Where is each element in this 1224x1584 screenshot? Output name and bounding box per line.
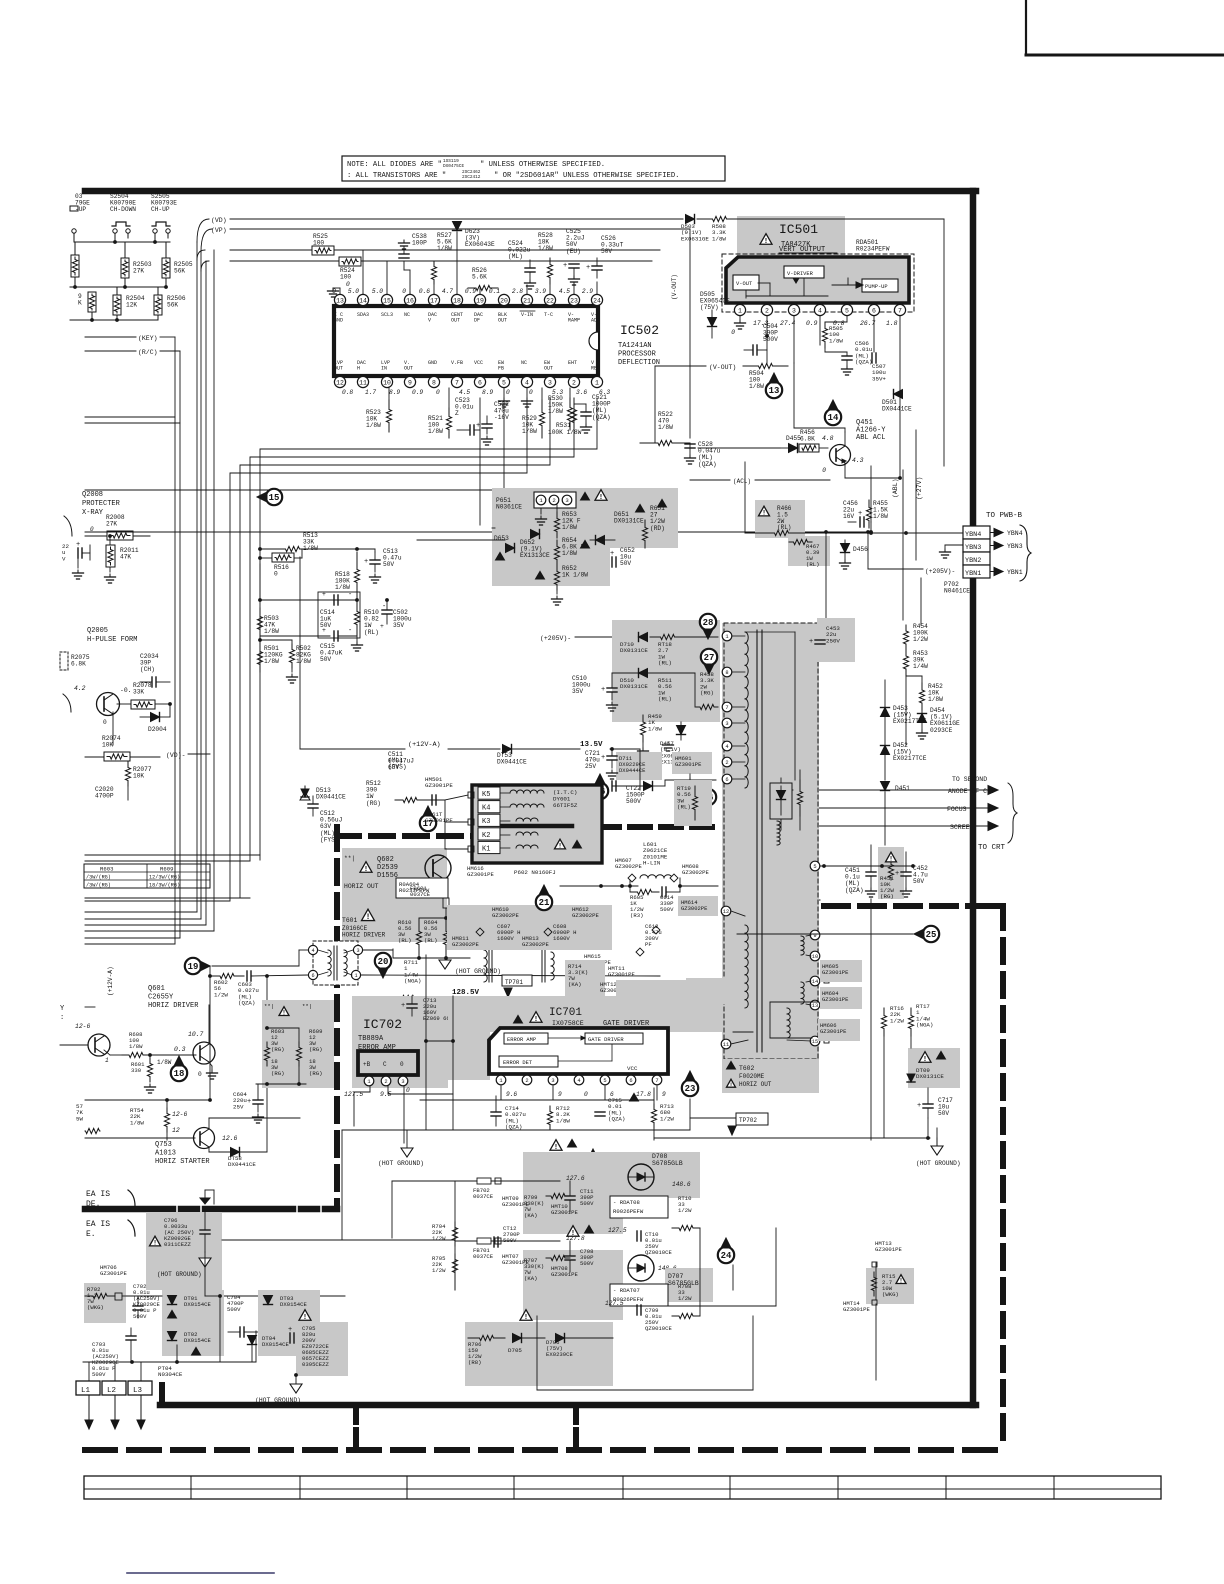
svg-text:(RG): (RG) <box>700 690 714 697</box>
transformer T602 hv rectifier <box>757 780 803 855</box>
svg-text:7: 7 <box>455 379 459 386</box>
node 26 <box>691 789 716 805</box>
capacitor C612 0.47u 200V <box>645 923 662 948</box>
wire ABL row <box>655 366 780 448</box>
ground HM601 <box>685 774 696 787</box>
svg-text:2SC2412: 2SC2412 <box>462 175 481 180</box>
hot/cold boundary dashed horizontal (mid right) <box>824 903 971 909</box>
svg-text:(KEY): (KEY) <box>138 335 158 342</box>
svg-text:19: 19 <box>476 297 484 304</box>
yoke terminal K3 <box>478 814 500 826</box>
svg-text:100: 100 <box>340 274 351 281</box>
svg-text:(ACL): (ACL) <box>733 478 751 485</box>
svg-text:50V: 50V <box>913 878 924 885</box>
label HM608 <box>682 863 709 876</box>
capacitor C704 4700P 500V <box>227 1294 258 1337</box>
resistor R459 1K 1/8W <box>638 713 663 757</box>
svg-text:PUMP-UP: PUMP-UP <box>865 284 888 290</box>
label HMT14 <box>843 1300 877 1313</box>
label RDA604 box <box>396 878 448 898</box>
svg-text:9.6: 9.6 <box>506 1091 517 1098</box>
svg-text:8.9: 8.9 <box>389 389 400 396</box>
svg-text:D708: D708 <box>652 1153 668 1160</box>
gray HM603 box <box>686 978 734 1004</box>
svg-text:!: ! <box>558 843 562 851</box>
wire SCL riser <box>85 261 206 925</box>
svg-text:D707: D707 <box>668 1273 684 1280</box>
label HM607 <box>615 857 642 870</box>
svg-text:5: 5 <box>845 307 849 314</box>
svg-text:EX1313CE: EX1313CE <box>520 552 550 559</box>
ic IC701 ERROR DET box <box>499 1056 558 1067</box>
resistor RT18 2.7 1W <box>650 634 718 666</box>
transformer T602 right windings <box>787 935 811 1041</box>
capacitor C513 0.47u 50V <box>330 548 402 583</box>
svg-text:1: 1 <box>105 1057 109 1064</box>
svg-text:13: 13 <box>769 386 780 396</box>
svg-text:L3: L3 <box>133 1387 143 1395</box>
ic IC702 pins <box>344 1076 410 1098</box>
wire mid bottom rails <box>85 1100 654 1296</box>
capacitor C652 10u 50V <box>610 547 635 567</box>
svg-text:(VD): (VD) <box>211 217 227 224</box>
svg-text:12K: 12K <box>126 302 137 309</box>
resistor R531 100K 1/8W <box>548 422 582 436</box>
resistor R452 10K 1/8W <box>906 676 943 710</box>
svg-text:0.9: 0.9 <box>806 320 818 327</box>
svg-text:**|: **| <box>344 855 355 862</box>
svg-text:(R/C): (R/C) <box>138 349 158 356</box>
diode D456 <box>840 540 869 569</box>
ic IC701 pin 7 <box>652 1075 666 1098</box>
svg-text:ABL ACL: ABL ACL <box>856 434 885 442</box>
transformer T602 pin12 <box>721 906 745 916</box>
svg-text:5: 5 <box>502 379 506 386</box>
svg-text:R0234PEFW: R0234PEFW <box>856 246 890 253</box>
svg-text:500V: 500V <box>580 1200 594 1207</box>
svg-text:3: 3 <box>725 721 728 727</box>
svg-text:2: 2 <box>765 307 769 314</box>
svg-text:11: 11 <box>723 1042 729 1048</box>
wire top transformer <box>727 608 745 632</box>
svg-text:1600V: 1600V <box>497 935 514 942</box>
transistor Q2005 <box>63 685 132 726</box>
label EA IS E cut <box>86 1220 135 1239</box>
ic IC501 PUMP-UP box <box>862 279 898 292</box>
label HMT13 <box>872 1240 902 1267</box>
label EA IS DE cut <box>86 1190 135 1209</box>
svg-text:+: + <box>586 264 590 272</box>
svg-text:SCL3: SCL3 <box>381 312 393 318</box>
resistor R518 180K 1/8W <box>335 552 360 600</box>
wire pin6 row <box>665 780 716 786</box>
ground pin4 <box>522 388 533 407</box>
svg-text:-: - <box>348 591 352 599</box>
svg-text:6.8K: 6.8K <box>800 436 815 443</box>
svg-text:500V: 500V <box>92 1371 106 1378</box>
node 27 <box>701 649 717 674</box>
svg-text:DX0441CE: DX0441CE <box>316 794 346 801</box>
svg-text:D2004: D2004 <box>148 726 167 733</box>
capacitor C614 330P 500V <box>660 886 718 913</box>
diode D701 DX0154CE <box>168 1295 212 1318</box>
svg-text:DX0441CE: DX0441CE <box>497 759 527 766</box>
svg-text:1/4W: 1/4W <box>913 663 928 670</box>
capacitor C512 0.56uJ <box>308 796 342 843</box>
node 22 <box>585 1149 601 1174</box>
svg-text:127.5: 127.5 <box>605 1300 624 1307</box>
svg-text:N0361CE: N0361CE <box>496 504 522 511</box>
svg-text:DX0154CE: DX0154CE <box>280 1301 307 1308</box>
svg-text:17: 17 <box>430 297 438 304</box>
svg-text:1: 1 <box>595 379 599 386</box>
svg-text:GZ3001PE: GZ3001PE <box>875 1246 902 1253</box>
svg-text:HORIZ OUT: HORIZ OUT <box>739 1081 772 1088</box>
wire pin16 nc <box>409 292 411 294</box>
svg-text:5: 5 <box>813 864 816 870</box>
resistor R525 100 <box>312 233 334 255</box>
gray RT19 box <box>674 780 712 826</box>
capacitor C507 100u 35V <box>872 316 886 382</box>
svg-text:100K 1/8W: 100K 1/8W <box>548 429 582 436</box>
svg-text:ADC: ADC <box>591 317 600 323</box>
wire bottom rail <box>70 312 158 322</box>
thyristor D707 S6785GLB <box>628 1255 699 1287</box>
transistor Q2008 X-RAY label <box>82 491 121 517</box>
svg-text:4: 4 <box>818 307 822 314</box>
inductor L601 H-LIN <box>628 841 682 888</box>
svg-text:(RL): (RL) <box>658 660 672 667</box>
label PT04 N0304CE <box>158 1365 183 1378</box>
svg-text:(HOT GROUND): (HOT GROUND) <box>378 1160 424 1167</box>
ic IC701 pin 2 <box>522 1075 532 1085</box>
capacitor C510 1000u 35V <box>572 673 618 711</box>
hot ground right <box>916 1128 961 1167</box>
capacitor C451 0.1u <box>845 845 877 897</box>
deflection yoke block DY601 <box>472 785 602 863</box>
svg-text:14: 14 <box>828 413 839 423</box>
svg-text:" UNLESS OTHERWISE SPECIFIED.: " UNLESS OTHERWISE SPECIFIED. <box>480 161 605 169</box>
svg-text:OUT: OUT <box>404 365 413 371</box>
svg-text:1/8W: 1/8W <box>264 628 279 635</box>
ground pin13 <box>328 281 351 297</box>
transistor Q451 A1266-Y <box>822 419 886 474</box>
ground stub C706 <box>200 1190 214 1204</box>
svg-text:DX0154CE: DX0154CE <box>184 1301 211 1308</box>
svg-text:YBN1: YBN1 <box>1007 569 1023 576</box>
gray HM604 box <box>820 987 862 1009</box>
yoke label DY601 <box>553 789 578 809</box>
svg-text:Q601: Q601 <box>148 985 165 993</box>
svg-text:0: 0 <box>822 467 826 474</box>
wire transformer bottoms <box>733 1013 753 1140</box>
svg-text:RAMP: RAMP <box>568 317 580 323</box>
svg-text:YBN3: YBN3 <box>965 544 981 552</box>
wire top right K5 <box>425 799 445 801</box>
svg-text:(V-OUT): (V-OUT) <box>671 274 678 300</box>
wire lower loop <box>345 1296 753 1390</box>
svg-text:4: 4 <box>311 948 314 954</box>
wire C514 row <box>260 635 357 637</box>
svg-text:C2655Y: C2655Y <box>148 994 174 1002</box>
svg-text:2.8: 2.8 <box>512 288 523 295</box>
connector P651 N0361CE <box>496 492 576 525</box>
svg-text:IC501: IC501 <box>779 222 818 237</box>
node 17 <box>420 806 436 831</box>
svg-text:26.7: 26.7 <box>860 320 876 327</box>
wire IC702 pins down <box>354 1086 453 1143</box>
resistor R709 330K 7W <box>524 1193 570 1219</box>
transformer T602 primary winding <box>745 632 748 788</box>
footer underline <box>127 1572 274 1574</box>
resistor R458 3.3K 2W <box>695 671 718 710</box>
svg-text:TP702: TP702 <box>739 1117 757 1124</box>
svg-text:DX0154CE: DX0154CE <box>262 1341 289 1348</box>
svg-text:100P: 100P <box>412 240 427 247</box>
svg-text:DX0441CE: DX0441CE <box>228 1161 256 1168</box>
capacitor C523 0.01u Z <box>455 397 480 435</box>
svg-text:6.8K: 6.8K <box>71 661 86 668</box>
svg-text:DX0131CE: DX0131CE <box>614 518 644 525</box>
diode D651 DX0131CE <box>590 504 645 544</box>
resistor R705 22K 1/2W <box>432 1254 458 1290</box>
svg-text:+: + <box>809 638 813 646</box>
svg-text:(HOT GROUND): (HOT GROUND) <box>255 1397 301 1404</box>
wire Q601 bundle <box>60 944 175 1045</box>
svg-text:EHT: EHT <box>568 360 577 366</box>
capacitor C538 100P <box>399 233 428 294</box>
svg-text:25: 25 <box>926 930 937 940</box>
svg-text:(FYS): (FYS) <box>388 764 407 771</box>
svg-text:12: 12 <box>336 379 344 386</box>
gray box P651 cluster <box>492 488 678 586</box>
svg-text:!: ! <box>762 510 766 518</box>
ic IC502 pin 14 <box>348 288 369 318</box>
switch S2503 (cut) <box>70 193 90 233</box>
svg-text:YBN4: YBN4 <box>1007 530 1023 537</box>
svg-text:VCC: VCC <box>627 1065 638 1072</box>
yoke bar <box>502 824 572 829</box>
svg-text:D456: D456 <box>853 546 868 553</box>
capacitor C525 2.2uJ <box>563 228 585 294</box>
svg-text:1: 1 <box>367 1079 370 1085</box>
ic IC502 pin 13 <box>332 288 345 323</box>
svg-text:H: H <box>357 365 360 371</box>
svg-text:12/3W/(RG): 12/3W/(RG) <box>149 875 180 881</box>
ic IC502 pin 4 <box>521 360 533 396</box>
svg-text:TO SECOND: TO SECOND <box>952 776 987 783</box>
gray R702 box <box>84 1283 126 1323</box>
diode D702 DX0154CE <box>168 1331 212 1355</box>
ic IC701 pin 6 <box>626 1075 651 1098</box>
svg-text:(+12V-A): (+12V-A) <box>408 741 441 749</box>
svg-text:1/8W: 1/8W <box>157 1059 172 1066</box>
svg-text:K2: K2 <box>482 832 490 840</box>
revision table <box>84 1476 1161 1499</box>
capacitor C607 6900P H 1600V <box>476 923 521 942</box>
label Y cut <box>60 1005 65 1022</box>
label HM612 <box>572 906 599 919</box>
svg-text:13: 13 <box>812 1003 818 1009</box>
svg-text:1/8W: 1/8W <box>928 696 943 703</box>
wire mid risers2 <box>424 955 455 1130</box>
ground R510 <box>352 636 363 651</box>
transformer T602 right pins <box>810 930 829 1046</box>
svg-text:6: 6 <box>725 777 728 783</box>
transformer T602 label box <box>722 1059 819 1093</box>
capacitor C524 0.022u <box>508 240 536 294</box>
diode D652 EX1313CE <box>520 530 550 560</box>
label HMT12 126V <box>600 981 662 997</box>
svg-text:- RDAT07: - RDAT07 <box>613 1287 640 1294</box>
label RDAT07 box <box>610 1284 668 1306</box>
wire ABL long run <box>85 489 610 491</box>
resistor R2506 56K <box>154 287 186 315</box>
svg-text:4700P: 4700P <box>95 793 114 800</box>
svg-text:!: ! <box>764 238 768 246</box>
svg-text:5.0: 5.0 <box>348 288 359 295</box>
svg-text:2: 2 <box>572 379 576 386</box>
label HMT11 <box>608 965 635 978</box>
svg-text:V.FB: V.FB <box>451 360 463 366</box>
net label (R/C) <box>85 349 180 356</box>
svg-text:D1556: D1556 <box>377 872 398 880</box>
wire L stubs <box>89 1362 141 1381</box>
net (V-OUT) <box>655 364 736 371</box>
fuse FB601 0037CE <box>410 885 431 898</box>
svg-text:-UP: -UP <box>75 206 86 213</box>
ic IC502 pin 19 <box>465 288 486 323</box>
svg-text:10K: 10K <box>102 742 113 749</box>
ic IC701 ERROR AMP box <box>504 1033 548 1044</box>
capacitor C709 0.01u <box>605 1300 672 1332</box>
svg-text:" OR "2SD601AR" UNLESS OTHERWI: " OR "2SD601AR" UNLESS OTHERWISE SPECIFI… <box>494 172 679 180</box>
svg-text:100: 100 <box>313 240 324 247</box>
svg-text:21: 21 <box>539 898 550 908</box>
svg-text:+: + <box>247 1098 251 1106</box>
transistor Q753 label <box>155 1141 210 1166</box>
svg-text:1/8W: 1/8W <box>366 422 381 429</box>
ic IC702 label <box>358 1017 402 1052</box>
svg-text:0: 0 <box>274 571 278 578</box>
label HM501 <box>425 776 453 789</box>
resistor R501 120KG 1/8W <box>257 638 282 672</box>
svg-text:1K 1/8W: 1K 1/8W <box>562 572 588 579</box>
hot/cold boundary dashed horizontal (bottom) <box>85 906 1003 1450</box>
ic IC701 label <box>514 1007 651 1028</box>
gray HM601 box <box>672 752 712 774</box>
label HM709 <box>495 1178 529 1208</box>
svg-text:8.9: 8.9 <box>482 389 493 396</box>
ic IC501 V-DRIVER box <box>784 266 824 278</box>
svg-text:S6785GLB: S6785GLB <box>652 1160 683 1167</box>
gray IC702 box <box>352 996 448 1088</box>
ic IC501 V-OUT box <box>733 275 759 290</box>
svg-text:(WKG): (WKG) <box>882 1291 899 1298</box>
svg-text:4.5: 4.5 <box>559 288 570 295</box>
svg-text:6: 6 <box>629 1078 632 1084</box>
capacitor CT12 2700P 500V <box>494 1225 520 1247</box>
svg-text:Z: Z <box>455 410 459 417</box>
transistor Q602 <box>425 855 451 881</box>
svg-text:GZ3001PE: GZ3001PE <box>467 871 494 878</box>
capacitor C452 4.7u 50V <box>895 852 928 897</box>
ic IC502 pin 16 <box>402 288 415 318</box>
thyristor D708 S6785GLB <box>550 1139 691 1190</box>
svg-text:35V: 35V <box>572 688 583 695</box>
resistor R451 10K gray <box>878 847 904 900</box>
resistor R505 100 1/8W <box>822 316 847 352</box>
svg-text:27: 27 <box>704 653 715 663</box>
svg-text:0: 0 <box>436 389 440 396</box>
resistor R527 5.6K <box>431 232 452 294</box>
capacitor C604 220u 25V <box>233 1084 264 1123</box>
diode D452 EX0217CE <box>881 742 927 780</box>
svg-text:+: + <box>322 627 326 634</box>
svg-text:(ML): (ML) <box>508 253 523 260</box>
transformer T602 lower winding <box>745 925 748 1008</box>
node 28 <box>700 614 716 639</box>
frame bottom bar <box>160 1385 976 1405</box>
gray C706 box <box>146 1212 222 1290</box>
net (+205V) right <box>868 532 955 575</box>
ic IC502 pin 22 <box>535 288 556 318</box>
gray R706 D705 D706 region <box>465 1322 613 1386</box>
svg-text:2: 2 <box>525 1078 528 1084</box>
capacitor C717 10u 50V <box>917 1088 953 1118</box>
net (V-OUT) rotated <box>671 274 678 300</box>
svg-text:12: 12 <box>723 909 729 915</box>
label HM605 GZ3001PE mid <box>0 0 1 1</box>
svg-text:20: 20 <box>378 957 389 967</box>
svg-text:DX0444CE: DX0444CE <box>619 767 646 774</box>
resistor R513 33K 1/8W <box>260 532 359 552</box>
resistor RT16 22K 1/2W <box>881 1005 904 1036</box>
ground pin8 <box>499 388 510 407</box>
resistor R2077 10K <box>125 762 151 800</box>
ic IC502 body <box>334 306 598 376</box>
resistor R602 56 1/2W <box>208 966 244 1100</box>
label RDAT08 box <box>610 1196 668 1218</box>
svg-text:Q2005: Q2005 <box>87 627 108 635</box>
label T601 <box>342 909 386 938</box>
svg-text:GZ3002PE: GZ3002PE <box>452 941 479 948</box>
svg-text:(RG): (RG) <box>309 1046 322 1053</box>
svg-text:3.9: 3.9 <box>535 288 546 295</box>
svg-text:!: ! <box>524 1314 528 1322</box>
svg-text:3: 3 <box>792 307 796 314</box>
svg-text:K5: K5 <box>482 791 490 799</box>
net (+12V-A) vertical label <box>107 966 114 996</box>
svg-text:28: 28 <box>703 618 714 628</box>
resistor R2078 33K <box>113 682 170 709</box>
svg-text:5.0: 5.0 <box>372 288 383 295</box>
svg-text:(RD): (RD) <box>650 525 665 532</box>
yoke terminal K4 <box>478 801 500 813</box>
switch S2505 CH-UP <box>151 193 177 233</box>
svg-text:+: + <box>895 870 899 878</box>
label HMT10 <box>551 1203 578 1216</box>
diode D706 EX0239CE <box>546 1334 613 1359</box>
svg-text:GZ3002PE: GZ3002PE <box>681 905 708 912</box>
svg-text:!: ! <box>554 1144 558 1152</box>
svg-text:3: 3 <box>356 948 359 954</box>
svg-text:500V: 500V <box>580 1260 594 1267</box>
wire top to IC501 <box>690 219 944 466</box>
svg-text:GATE DRIVER: GATE DRIVER <box>588 1037 624 1043</box>
ic IC501 internal wires <box>746 278 863 298</box>
svg-text:0.6: 0.6 <box>419 288 430 295</box>
